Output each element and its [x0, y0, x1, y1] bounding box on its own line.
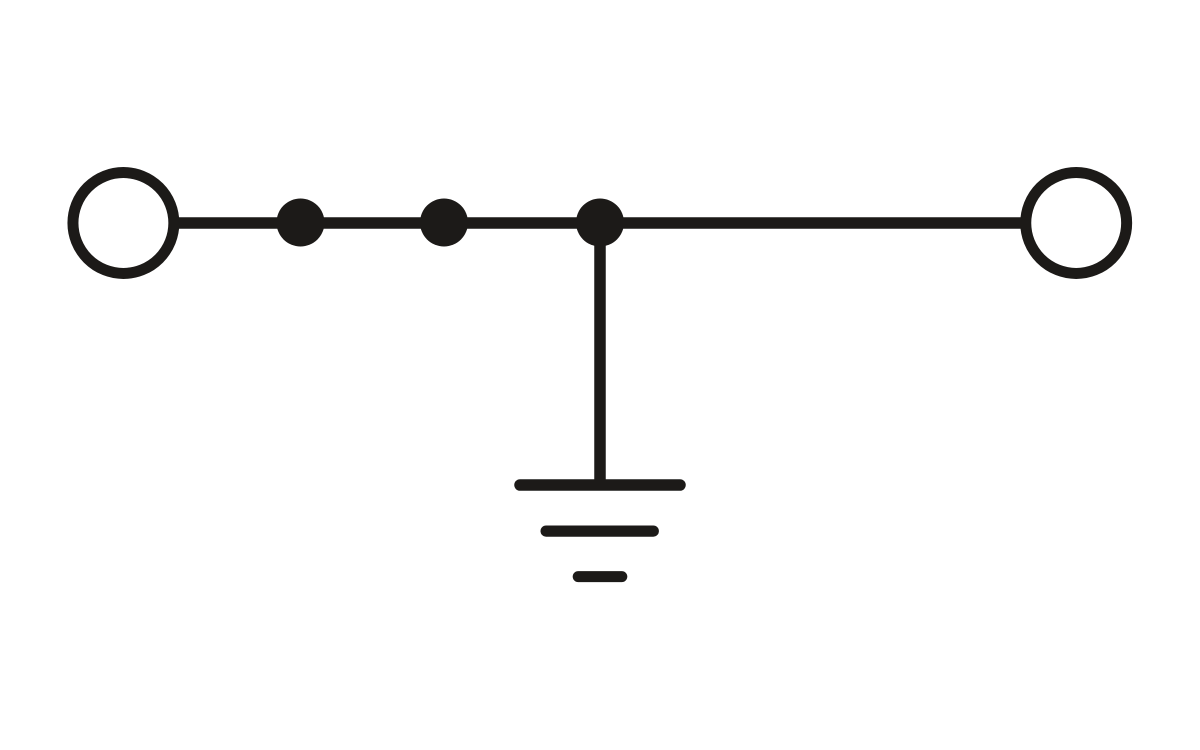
- ground (earth symbol, middle bar): [546, 525, 653, 536]
- terminal 1 (left screw-connection circle): [73, 173, 174, 274]
- junction dot 2: [420, 199, 468, 247]
- ground (earth symbol, top bar): [520, 479, 680, 491]
- junction dot 3 (node joining ground branch): [576, 199, 624, 247]
- terminal 2 (right screw-connection circle): [1026, 173, 1127, 274]
- junction dot 1: [277, 199, 325, 247]
- wire (vertical drop from center junction to ground): [594, 222, 606, 485]
- wire (horizontal bus from left terminal to right terminal): [123, 217, 1077, 228]
- ground (earth symbol, bottom bar): [578, 571, 622, 582]
